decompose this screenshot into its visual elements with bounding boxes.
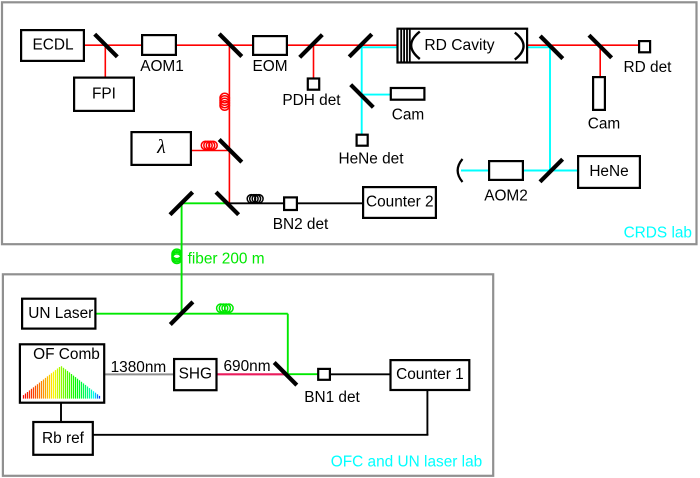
svg-text:AOM2: AOM2 [484, 188, 528, 205]
svg-text:Cam: Cam [392, 106, 425, 123]
svg-text:OFC and UN laser lab: OFC and UN laser lab [331, 454, 482, 471]
svg-text:Rb ref: Rb ref [42, 430, 85, 447]
svg-text:HeNe: HeNe [589, 163, 628, 180]
svg-text:690nm: 690nm [223, 358, 270, 375]
svg-text:λ: λ [156, 136, 166, 158]
svg-text:FPI: FPI [92, 85, 116, 102]
svg-text:RD det: RD det [624, 59, 673, 76]
svg-text:fiber 200 m: fiber 200 m [188, 251, 265, 268]
svg-text:ECDL: ECDL [32, 36, 73, 53]
svg-text:Cam: Cam [588, 115, 621, 132]
svg-text:EOM: EOM [252, 58, 287, 75]
svg-text:AOM1: AOM1 [140, 58, 184, 75]
svg-text:BN1 det: BN1 det [304, 389, 360, 406]
svg-text:CRDS lab: CRDS lab [624, 224, 692, 241]
svg-text:HeNe det: HeNe det [338, 150, 404, 167]
svg-text:1380nm: 1380nm [111, 359, 167, 376]
svg-text:SHG: SHG [179, 365, 212, 382]
svg-text:PDH det: PDH det [282, 92, 341, 109]
svg-text:Counter 2: Counter 2 [366, 193, 434, 210]
svg-text:Counter 1: Counter 1 [396, 366, 464, 383]
svg-text:BN2 det: BN2 det [273, 216, 329, 233]
svg-text:OF Comb: OF Comb [33, 346, 100, 363]
svg-text:UN Laser: UN Laser [28, 305, 93, 322]
svg-text:RD Cavity: RD Cavity [424, 37, 494, 54]
